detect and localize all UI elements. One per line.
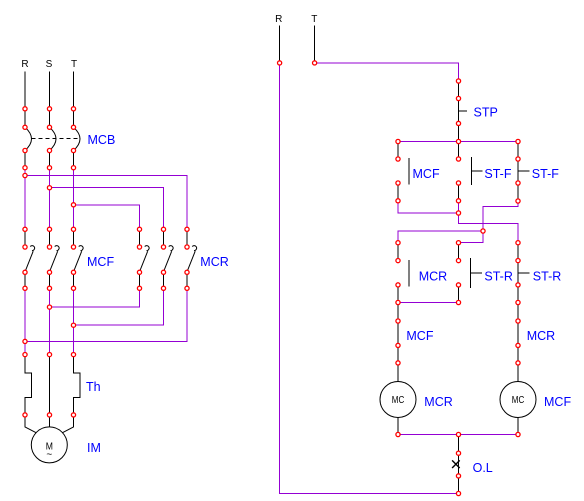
svg-text:MCF: MCF [406,329,433,343]
svg-text:Th: Th [86,380,101,394]
wire bus to O.L [458,435,460,454]
svg-text:IM: IM [87,441,101,455]
wire phase 2 straight [49,355,51,415]
wire top bus (purple) [398,141,518,143]
pushbutton ST-R NC [518,243,530,303]
svg-text:ST-F: ST-F [532,167,559,181]
wire bus T to MCR column 4 [74,205,140,230]
breaker MCB pole 3 arc [74,127,81,150]
breaker MCB pole 2 arc [50,127,57,150]
svg-text:R: R [275,14,282,25]
svg-text:ST-F: ST-F [484,167,511,181]
wire cross node to MCR branch (purple) [398,231,483,243]
svg-text:MC: MC [392,394,405,406]
wire bus S to MCR column 5 [50,188,164,230]
wire bottom bus (purple) [398,434,518,436]
wire R rail top [279,26,281,63]
svg-text:MCR: MCR [527,329,555,343]
svg-text:MCR: MCR [419,269,447,283]
svg-text:T: T [71,59,77,70]
nodes on MCR column 6 [185,227,189,290]
wire join to right branch (purple) [459,213,519,243]
svg-text:ST-R: ST-R [484,269,512,283]
svg-text:STP: STP [474,105,498,119]
nodes on T feed and STP [278,61,461,126]
wire MCF pole2 down (purple) [49,288,51,354]
overload Th element phase 3 [74,355,81,415]
motor IM circle [31,427,67,463]
nodes on ST-R NC branch [516,241,520,305]
wire S to MCF contact (purple) [49,168,51,230]
svg-text:O.L: O.L [473,461,493,475]
svg-text:S: S [46,59,53,70]
wire MCF coil bottom [517,418,519,435]
contact MCF branch stubs [397,142,399,201]
node cross junction [481,229,485,233]
wire T to MCF contact (purple) [73,168,75,230]
svg-text:R: R [21,59,28,70]
svg-text:MCR: MCR [200,255,228,269]
svg-text:T: T [311,14,317,25]
wire MCF/ST-F join (purple) [398,201,459,213]
wire S below breaker [49,151,51,168]
wire R below breaker [24,151,26,168]
svg-text:~: ~ [46,449,52,460]
nodes on MCF coil branch [516,319,520,437]
wire phase R top [24,72,26,128]
wire T feed (purple) [315,63,459,81]
wire to motor phase 1 [25,415,37,433]
wire MCR coil bottom [397,418,399,435]
wire T below breaker [73,151,75,168]
coil MC (MCR) circle [380,382,416,418]
wire phase S top [49,72,51,128]
wire bus R to MCR column 6 [25,176,187,230]
wire MCR coil branch [397,303,399,382]
wire R rail (purple) [280,63,459,494]
pushbutton STP [459,99,468,124]
nodes on ST-R NO branch [456,241,460,305]
wire O.L to bottom rail [458,476,460,494]
nodes on phase S column [47,107,51,417]
svg-text:MCF: MCF [544,395,571,409]
pushbutton ST-F NO bar [471,157,482,185]
wire R to MCF contact (purple) [24,168,26,230]
nodes on phase R column [23,107,27,417]
contact MCF bar [408,158,410,184]
nodes on ST-F NC branch [516,139,520,203]
contactor MCR pole 2 [164,229,174,288]
nodes on MCR column 5 [161,227,165,290]
svg-text:MCF: MCF [87,255,114,269]
svg-text:MCR: MCR [424,395,452,409]
wire STP to bus [458,123,460,141]
breaker MCB pole 1 arc [25,127,32,150]
wire T drop [458,81,460,99]
nodes on MCR coil branch [396,319,400,437]
contact MCR bar [408,260,410,287]
wire MCR pole2 to T column [74,288,164,325]
contactor MCR pole 3 [187,229,197,288]
contactor MCF pole 3 [74,229,84,288]
nodes on MCR column 4 [137,227,141,290]
svg-text:ST-R: ST-R [533,269,561,283]
wire cross node to ST-R branch (purple) [459,231,484,243]
wire MCF pole1 down (purple) [24,288,26,354]
wire MCF coil branch [517,303,519,382]
wire MCR/ST-R join (purple) [398,302,459,304]
pushbutton ST-F NO stubs [458,142,460,201]
coil MC (MCF) circle [500,382,536,418]
wire T rail top [314,26,316,63]
pushbutton ST-R NO bar [471,258,482,288]
svg-text:MCB: MCB [88,133,116,147]
wire MCF pole3 down (purple) [73,288,75,354]
breaker MCB dashed link [32,138,80,140]
nodes on MCR branch [396,241,400,305]
overload X mark [452,460,460,468]
overload Th element phase 1 [25,355,32,415]
overload contact O.L [458,453,460,476]
contactor MCR pole 1 [140,229,150,288]
wire ST-F NC to cross node (purple) [483,201,518,231]
contactor MCF pole 2 [50,229,60,288]
contactor MCF pole 1 [25,229,35,288]
svg-text:MC: MC [512,394,525,406]
wire to motor phase 3 [61,415,73,433]
pushbutton ST-F NC [518,142,530,202]
wire MCR pole1 to S column [50,288,140,307]
nodes on phase T column [71,107,75,417]
pushbutton ST-R NO stubs [458,243,460,303]
svg-text:MCF: MCF [413,167,440,181]
contact MCR branch stubs [397,243,399,303]
nodes on MCF branch [396,139,400,203]
wire phase T top [73,72,75,128]
wire MCR pole3 to R column [25,288,187,341]
nodes on O.L branch [456,432,460,495]
nodes on ST-F NO branch [456,139,460,215]
wire to motor phase 2 [49,415,51,427]
